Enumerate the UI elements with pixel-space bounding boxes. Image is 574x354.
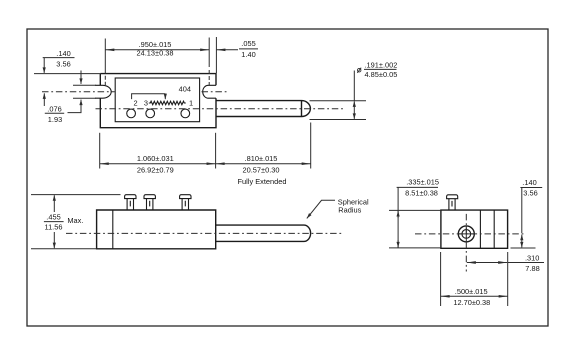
svg-text:1.40: 1.40 <box>241 50 255 59</box>
svg-text:.191±.002: .191±.002 <box>365 61 398 70</box>
svg-text:8.51±0.38: 8.51±0.38 <box>405 189 438 198</box>
svg-text:.140: .140 <box>56 49 70 58</box>
svg-text:.500±.015: .500±.015 <box>455 287 488 296</box>
svg-text:26.92±0.79: 26.92±0.79 <box>137 165 174 174</box>
svg-text:.455: .455 <box>46 213 60 222</box>
svg-text:1.060±.031: 1.060±.031 <box>137 154 174 163</box>
svg-text:24.13±0.38: 24.13±0.38 <box>137 49 174 58</box>
svg-text:Radius: Radius <box>338 206 361 215</box>
svg-text:4.85±0.05: 4.85±0.05 <box>365 70 398 79</box>
svg-text:Max.: Max. <box>67 216 83 225</box>
svg-text:.055: .055 <box>241 39 255 48</box>
svg-text:.076: .076 <box>47 105 61 114</box>
svg-text:.335±.015: .335±.015 <box>406 178 439 187</box>
svg-text:1.93: 1.93 <box>48 115 62 124</box>
svg-text:.140: .140 <box>522 178 536 187</box>
svg-text:3: 3 <box>144 98 148 107</box>
svg-text:.810±.015: .810±.015 <box>245 154 278 163</box>
svg-text:3.56: 3.56 <box>56 60 70 69</box>
svg-text:404: 404 <box>179 84 191 93</box>
svg-text:2: 2 <box>134 98 138 107</box>
svg-text:12.70±0.38: 12.70±0.38 <box>453 298 490 307</box>
svg-text:7.88: 7.88 <box>525 264 539 273</box>
svg-text:1: 1 <box>189 98 193 107</box>
svg-text:3.56: 3.56 <box>523 189 537 198</box>
svg-text:11.56: 11.56 <box>45 223 63 232</box>
svg-text:Fully Extended: Fully Extended <box>238 177 287 186</box>
svg-text:20.57±0.30: 20.57±0.30 <box>243 165 280 174</box>
svg-text:.310: .310 <box>525 254 539 263</box>
